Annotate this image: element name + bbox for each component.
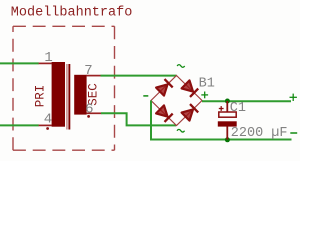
diode D3 [156,105,167,116]
diode D4 [182,109,193,120]
dashed boundary box [13,25,115,27]
diode D1 [156,84,167,95]
pin stub 7 of TR1 [86,75,101,77]
wire pin7 to bridge AC top [101,75,177,77]
svg-text:1: 1 [44,50,52,66]
pin stub 4 of TR1 [39,124,52,126]
capacitor C1 top plate [219,112,236,117]
polarity dot pin 6 [87,115,90,118]
polarity dot pin 4 [46,127,49,130]
svg-text:7: 7 [84,63,92,79]
svg-text:6: 6 [85,101,93,117]
svg-text:B1: B1 [199,77,215,92]
svg-text:Modellbahntrafo: Modellbahntrafo [11,5,133,20]
svg-text:PRI: PRI [34,85,48,108]
bridge minus mark [143,95,148,97]
bridge AC mark bottom [177,129,185,132]
pin stub 6 of TR1 [86,112,101,114]
bridge B1 diamond edges [151,76,202,126]
output minus sign [290,132,297,134]
junction node bottom of C1 [225,137,230,142]
svg-text:C1: C1 [230,101,246,116]
svg-text:4: 4 [44,111,52,127]
capacitor plus mark [219,108,224,110]
capacitor C1 lead top [226,101,228,113]
capacitor C1 bottom plate [218,121,237,126]
bridge plus mark [201,94,208,96]
output plus sign [290,96,297,98]
diode D2 [182,80,193,91]
bridge AC mark top [177,65,185,68]
junction node top of C1 [225,99,230,104]
pin stub 1 of TR1 [39,62,52,64]
transformer core line 2 [68,64,70,130]
wire minus drop from bridge [151,101,292,140]
transformer TR1 secondary winding [74,75,86,115]
transformer TR1 primary winding [52,62,65,127]
svg-text:2200 µF: 2200 µF [231,126,288,141]
wire plus rail [202,100,291,102]
wire pin6 to bridge AC bottom [101,113,176,125]
capacitor C1 lead bottom [226,126,228,140]
wire net AC2 left (pin 4) [0,124,39,126]
wire net AC1 left (pin 1) [0,62,39,64]
transformer core line 1 [66,64,67,130]
